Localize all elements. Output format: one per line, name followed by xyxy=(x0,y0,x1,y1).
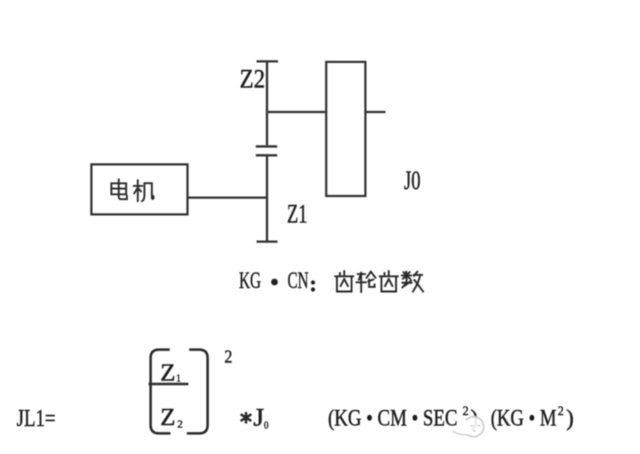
shaft top end cap xyxy=(257,60,279,62)
svg-text:JL1=: JL1= xyxy=(17,406,56,432)
svg-text:Z: Z xyxy=(160,405,175,431)
svg-text:2: 2 xyxy=(177,418,183,430)
load inertia box J0 xyxy=(326,62,365,196)
svg-text:Z1: Z1 xyxy=(287,200,308,229)
gear shaft upper segment xyxy=(266,61,268,145)
svg-text:): ) xyxy=(566,406,574,431)
wire shaft to load xyxy=(267,111,326,113)
svg-text:(KG • M: (KG • M xyxy=(491,406,557,431)
svg-text:0: 0 xyxy=(264,419,269,431)
coupling plate upper xyxy=(256,145,277,147)
svg-text:2: 2 xyxy=(224,346,232,366)
bracket right xyxy=(187,350,208,434)
svg-text:2: 2 xyxy=(463,404,469,418)
svg-text:1: 1 xyxy=(176,372,181,384)
svg-text:2: 2 xyxy=(558,404,564,418)
svg-text:KG: KG xyxy=(239,268,261,293)
svg-text:Z: Z xyxy=(160,360,175,386)
gear shaft lower segment xyxy=(266,156,268,240)
svg-text:Z2: Z2 xyxy=(240,64,266,93)
watermark emoji xyxy=(465,418,485,438)
fraction bar xyxy=(149,383,189,385)
motor box xyxy=(91,164,187,214)
bracket left xyxy=(151,350,171,434)
svg-text:J: J xyxy=(253,405,264,432)
caption 齿 (1) xyxy=(335,271,353,291)
motor label 机 xyxy=(134,180,154,201)
caption 轮 xyxy=(357,272,376,292)
shaft bottom end cap xyxy=(257,240,278,242)
svg-text:CN: CN xyxy=(288,268,309,293)
caption 齿 (2) xyxy=(380,271,398,291)
coupling plate lower xyxy=(256,154,277,156)
svg-text:J0: J0 xyxy=(404,166,421,195)
caption 数 xyxy=(402,272,423,292)
wire load output stub xyxy=(365,111,385,113)
multiply sign xyxy=(242,413,251,422)
svg-text:(KG • CM • SEC: (KG • CM • SEC xyxy=(328,406,458,431)
motor label 电 xyxy=(111,179,127,199)
wire motor to gear shaft xyxy=(188,197,268,199)
